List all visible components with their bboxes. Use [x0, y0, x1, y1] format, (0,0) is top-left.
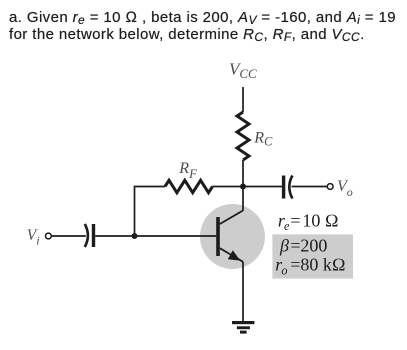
svg-text:=: =: [290, 236, 300, 256]
svg-text:Vo: Vo: [337, 178, 353, 199]
svg-text:RC: RC: [253, 129, 273, 148]
svg-text:β: β: [279, 236, 289, 256]
svg-text:Vi: Vi: [27, 227, 40, 247]
svg-text:=: =: [290, 255, 300, 275]
svg-text:RF: RF: [178, 160, 197, 181]
svg-text:80 kΩ: 80 kΩ: [300, 255, 345, 275]
svg-text:VCC: VCC: [229, 60, 257, 81]
svg-text:10 Ω: 10 Ω: [302, 210, 338, 230]
svg-text:=: =: [290, 210, 300, 230]
svg-text:re: re: [278, 210, 290, 233]
svg-text:200: 200: [300, 236, 327, 256]
